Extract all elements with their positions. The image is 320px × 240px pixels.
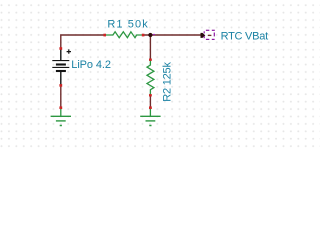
pin mark battery top [59,47,62,50]
port dashed box [204,30,215,40]
pin mark battery bottom [59,84,62,87]
svg-text:R1 50k: R1 50k [107,19,148,31]
magenta tick at junction [153,34,155,35]
battery black stub bottom [60,72,62,85]
ground GND2 (R2) [140,109,160,126]
port pin dash [208,34,212,36]
wire R2 bottom to ground [149,95,151,107]
pin mark R1 left [103,34,106,37]
resistor R1 body [105,32,142,38]
wire battery bottom to ground [60,85,62,107]
svg-text:LiPo 4.2: LiPo 4.2 [71,59,111,71]
pin mark R2 bottom [149,94,152,96]
ground GND1 (battery) [51,109,71,126]
battery plate long thin 2 [52,66,69,68]
battery plate short thick 2 [56,70,66,72]
battery BT (LiPo) black stub top [60,50,62,61]
svg-text:R2 125k: R2 125k [161,62,173,102]
pin mark R2 top [149,59,152,61]
resistor R2 body [147,61,154,95]
port arrow RTC VBat [201,33,206,38]
pin mark R1 right [142,34,145,37]
svg-text:RTC VBat: RTC VBat [221,31,269,43]
wire junction down to R2 top [149,35,151,60]
battery plus sign [67,49,71,53]
wire R1 right to port RTC VBat [143,34,201,36]
junction dot [148,33,152,37]
battery plate long thin 1 [52,60,69,62]
battery plate short thick 1 [56,63,66,65]
pin mark ground GND1 [59,106,62,109]
pin mark ground GND2 [149,106,152,109]
wire battery top to R1 left [61,35,105,49]
